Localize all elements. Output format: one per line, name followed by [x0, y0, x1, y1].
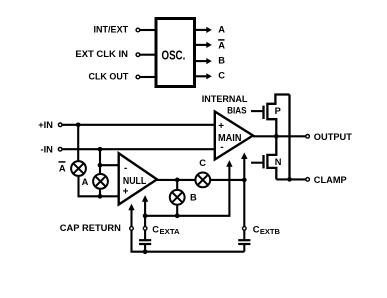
- capacitor CEXTB: [243, 231, 245, 240]
- clamp rail vertical: [288, 95, 290, 180]
- transistor P gate bar: [262, 106, 264, 119]
- wire CEXTA terminal up: [144, 216, 146, 227]
- svg-text:CAP RETURN: CAP RETURN: [60, 223, 121, 233]
- wire bottom run and correction arrow into MAIN: [145, 164, 229, 216]
- svg-text:-: -: [220, 142, 223, 153]
- wire to NULL minus input: [100, 164, 119, 166]
- OSC output arrow B: [196, 60, 207, 62]
- svg-text:INT/EXT: INT/EXT: [94, 24, 129, 34]
- junction B branch: [175, 178, 180, 183]
- svg-text:+IN: +IN: [38, 120, 53, 130]
- svg-text:INTERNAL: INTERNAL: [202, 94, 248, 104]
- CLK OUT terminal: [136, 75, 140, 79]
- svg-text:A: A: [59, 163, 66, 173]
- svg-text:C: C: [218, 70, 225, 80]
- OSC output arrow A: [196, 29, 207, 31]
- svg-text:EXT CLK IN: EXT CLK IN: [75, 49, 128, 59]
- wire EXT CLK IN to OSC: [140, 54, 155, 56]
- svg-text:CLK OUT: CLK OUT: [89, 71, 129, 81]
- transistor N gate bar: [262, 155, 264, 168]
- EXT CLK IN terminal: [136, 53, 140, 57]
- svg-text:EXTB: EXTB: [260, 229, 280, 236]
- op-amp U3 MAIN: [215, 112, 253, 160]
- CLAMP terminal: [306, 178, 310, 182]
- wire +IN to MAIN plus input: [62, 124, 215, 126]
- chopper switch B: [170, 190, 185, 205]
- CEXTA terminal: [143, 227, 147, 231]
- junction +IN branch: [76, 122, 81, 127]
- wire NULL output to switch C: [157, 179, 196, 181]
- correction arrow into NULL from CEXTA: [144, 199, 146, 216]
- correction arrow into MAIN from CEXTB branch: [243, 156, 245, 180]
- OUTPUT terminal: [306, 135, 310, 139]
- OSC output arrow Abar: [196, 44, 207, 46]
- wire -IN branch down to switch A: [99, 149, 101, 174]
- transistor N body and leads: [267, 136, 276, 179]
- svg-text:B: B: [190, 193, 197, 203]
- svg-text:+: +: [123, 186, 129, 197]
- oscillator block U1 (OSC): [156, 19, 195, 87]
- ground rail wire: [145, 251, 244, 253]
- svg-text:A: A: [218, 41, 225, 51]
- wire INT/EXT to OSC: [140, 29, 155, 31]
- junction ground rail under CEXTA: [143, 249, 148, 254]
- wire switch A down to NULL plus line: [99, 189, 101, 197]
- wire switch Abar down to NULL plus input: [79, 176, 119, 196]
- INT/EXT terminal: [136, 28, 140, 32]
- wire switch B down to bottom run: [176, 205, 178, 216]
- junction NULL minus tap: [98, 163, 103, 168]
- correction arrow into NULL from CAP RETURN: [130, 207, 132, 226]
- chopper switch A: [93, 174, 108, 189]
- wire +IN branch down to switch Abar: [77, 125, 79, 161]
- junction output transistors: [274, 134, 279, 139]
- svg-text:A: A: [82, 177, 89, 187]
- wire MAIN output to OUTPUT: [253, 135, 306, 137]
- transistor N gate lead: [251, 162, 262, 164]
- CAP RETURN terminal: [130, 227, 134, 231]
- svg-text:P: P: [275, 106, 281, 116]
- svg-text:+: +: [218, 121, 224, 132]
- junction CEXTA branch: [143, 213, 148, 218]
- wire switch C to cap B branch: [210, 179, 244, 181]
- svg-text:BIAS: BIAS: [227, 106, 247, 116]
- svg-text:-: -: [124, 163, 127, 174]
- svg-text:B: B: [218, 56, 225, 66]
- wire CLK OUT to OSC: [140, 76, 155, 78]
- chopper switch Abar: [71, 161, 86, 176]
- transistor P body and leads: [267, 95, 289, 137]
- transistor P gate lead: [251, 110, 262, 112]
- chopper switch C: [195, 173, 210, 188]
- wire -IN to MAIN minus input: [62, 148, 215, 150]
- svg-text:C: C: [253, 225, 260, 235]
- junction below switch A: [98, 194, 103, 199]
- svg-text:C: C: [199, 158, 206, 168]
- wire clamp line: [276, 178, 306, 180]
- svg-text:C: C: [152, 225, 159, 235]
- CEXTB terminal: [243, 227, 247, 231]
- junction cap B branch: [242, 178, 247, 183]
- svg-text:OSC.: OSC.: [162, 48, 186, 62]
- svg-text:EXTA: EXTA: [160, 229, 180, 236]
- wire CAP RETURN down to ground rail: [132, 231, 146, 252]
- wire NULL output down to switch B: [176, 180, 178, 190]
- wire CEXTB branch down: [243, 180, 245, 226]
- capacitor CEXTA: [144, 231, 146, 240]
- junction clamp rail: [287, 177, 292, 182]
- op-amp U2 NULL: [119, 153, 157, 204]
- svg-text:OUTPUT: OUTPUT: [314, 132, 352, 143]
- svg-text:N: N: [275, 157, 282, 167]
- svg-text:-IN: -IN: [40, 144, 53, 154]
- junction switch B bottom: [175, 213, 180, 218]
- OSC output arrow C: [196, 75, 207, 77]
- -IN terminal: [58, 147, 62, 151]
- junction -IN branch: [98, 147, 103, 152]
- svg-text:A: A: [218, 24, 225, 34]
- svg-text:CLAMP: CLAMP: [314, 175, 347, 186]
- +IN terminal: [58, 123, 62, 127]
